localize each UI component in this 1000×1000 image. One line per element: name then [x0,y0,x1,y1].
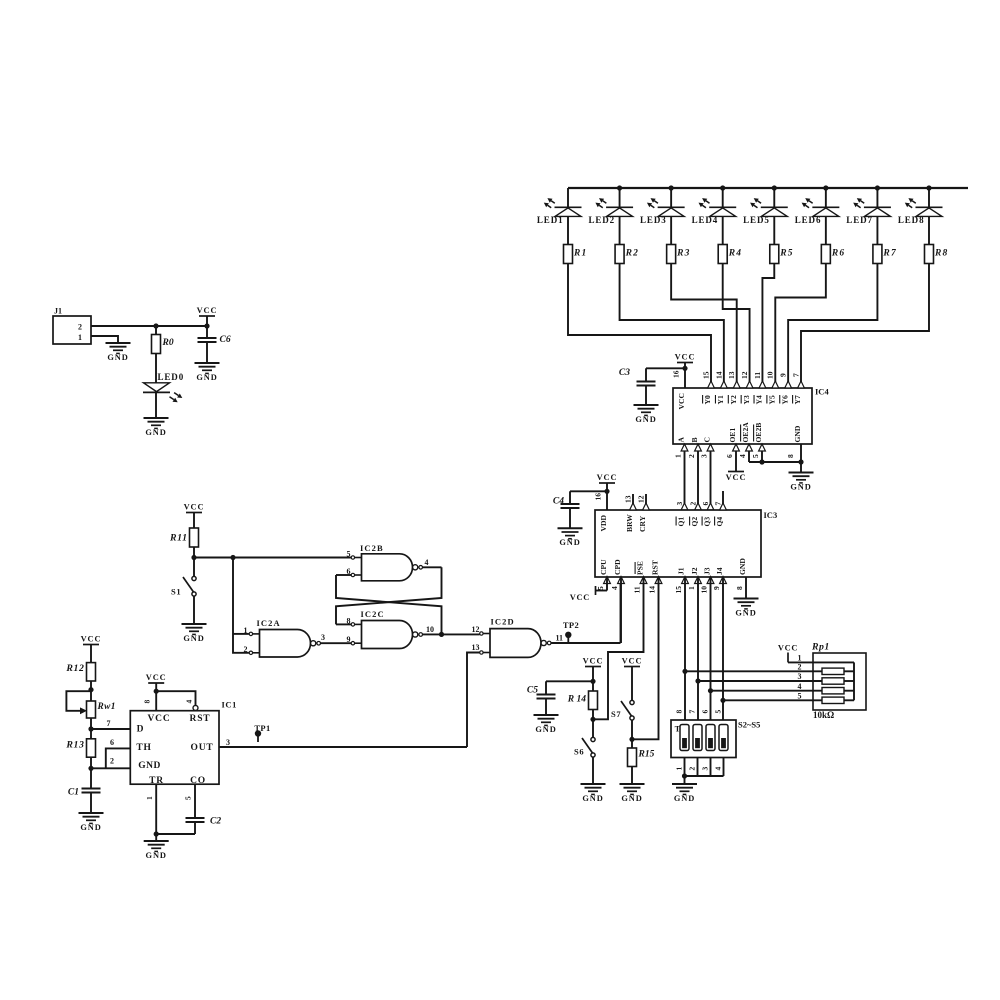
svg-text:VCC: VCC [778,644,798,653]
svg-text:OUT: OUT [191,743,214,753]
svg-text:VCC: VCC [81,635,102,644]
svg-text:TP2: TP2 [563,620,579,630]
svg-text:VCC: VCC [148,714,171,724]
svg-text:R4: R4 [728,249,743,259]
svg-text:C: C [703,437,712,442]
svg-text:1: 1 [78,333,82,342]
svg-text:GND: GND [559,538,580,547]
svg-text:LED6: LED6 [795,215,822,225]
svg-text:10: 10 [426,625,434,634]
svg-text:16: 16 [672,370,681,378]
svg-text:2: 2 [244,645,248,654]
svg-text:R2: R2 [625,249,640,259]
svg-text:GND: GND [738,558,747,575]
svg-text:GND: GND [146,851,167,860]
svg-text:OE2B: OE2B [754,423,763,443]
svg-text:J4: J4 [715,567,724,575]
svg-text:4: 4 [738,454,747,458]
svg-text:Q1: Q1 [677,517,686,527]
svg-text:11: 11 [753,372,762,379]
svg-text:B: B [690,437,699,442]
svg-text:7: 7 [107,719,111,728]
svg-text:S6: S6 [574,747,584,757]
svg-text:GND: GND [535,725,556,734]
svg-text:5: 5 [184,796,193,800]
svg-text:S2~S5: S2~S5 [738,720,760,730]
svg-text:D: D [137,725,144,735]
svg-text:CRY: CRY [638,515,647,532]
svg-text:GND: GND [196,373,217,382]
svg-text:6: 6 [701,502,710,506]
svg-text:16: 16 [594,493,603,501]
svg-text:LED4: LED4 [692,215,719,225]
svg-text:IC1: IC1 [222,700,238,710]
svg-text:4: 4 [425,558,429,567]
svg-text:5: 5 [751,454,760,458]
svg-text:GND: GND [107,353,128,362]
svg-text:14: 14 [714,371,723,379]
svg-text:Y1: Y1 [716,395,725,404]
svg-text:LED5: LED5 [743,215,770,225]
svg-text:6: 6 [700,710,709,714]
svg-text:S7: S7 [611,709,621,719]
svg-text:T: T [675,724,681,734]
svg-text:1: 1 [244,626,248,635]
svg-text:12: 12 [740,371,749,379]
svg-text:S1: S1 [171,587,181,597]
svg-text:13: 13 [727,371,736,379]
svg-text:4: 4 [798,682,802,691]
svg-text:VCC: VCC [570,593,590,602]
svg-text:BRW: BRW [625,514,634,532]
svg-text:GND: GND [183,634,204,643]
svg-text:7: 7 [791,373,800,377]
svg-text:Y3: Y3 [742,395,751,404]
svg-text:LED8: LED8 [898,215,925,225]
svg-text:GND: GND [582,794,603,803]
svg-text:2: 2 [78,323,82,332]
svg-text:3: 3 [226,738,230,747]
svg-text:R0: R0 [162,338,174,348]
svg-text:GND: GND [790,482,811,491]
svg-text:5: 5 [596,586,605,590]
svg-text:3: 3 [699,454,708,458]
svg-text:GND: GND [80,823,101,832]
svg-text:VCC: VCC [675,353,696,362]
svg-text:Q4: Q4 [715,517,724,527]
svg-text:C2: C2 [210,817,221,827]
svg-text:3: 3 [700,767,709,771]
svg-text:R11: R11 [169,533,188,544]
svg-text:13: 13 [623,495,632,503]
svg-text:9: 9 [347,635,351,644]
svg-text:12: 12 [472,625,480,634]
svg-text:9: 9 [779,373,788,377]
svg-text:6: 6 [110,738,114,747]
svg-text:Rp1: Rp1 [811,642,830,653]
svg-text:5: 5 [713,710,722,714]
svg-text:VCC: VCC [677,393,686,409]
svg-text:C1: C1 [68,788,79,798]
svg-text:5: 5 [798,691,802,700]
svg-text:GND: GND [793,425,802,442]
svg-text:15: 15 [701,371,710,379]
svg-text:11: 11 [556,633,564,642]
svg-text:2: 2 [688,502,697,506]
svg-text:VCC: VCC [726,473,747,482]
svg-text:CPU: CPU [599,559,608,575]
svg-text:R7: R7 [882,249,897,259]
svg-text:C5: C5 [527,686,538,696]
svg-text:IC2C: IC2C [361,609,385,619]
svg-text:Y4: Y4 [755,395,764,404]
svg-text:IC2B: IC2B [360,543,384,553]
svg-text:IC4: IC4 [815,387,829,397]
svg-text:4: 4 [185,700,194,704]
svg-text:1: 1 [798,653,802,662]
svg-text:10: 10 [699,586,708,594]
svg-text:2: 2 [798,663,802,672]
svg-text:LED7: LED7 [846,215,873,225]
svg-text:GND: GND [674,794,695,803]
svg-text:Y2: Y2 [729,395,738,404]
svg-text:VCC: VCC [583,657,604,666]
svg-text:5: 5 [347,550,351,559]
svg-text:R15: R15 [638,750,655,760]
svg-text:8: 8 [674,710,683,714]
svg-text:R12: R12 [65,663,84,674]
svg-text:2: 2 [110,756,114,765]
svg-text:RST: RST [190,714,211,724]
svg-text:1: 1 [145,796,154,800]
svg-text:VCC: VCC [597,473,618,482]
svg-text:R1: R1 [573,249,588,259]
svg-text:4: 4 [610,586,619,590]
svg-text:GND: GND [138,761,161,771]
svg-text:R6: R6 [831,249,846,259]
svg-text:3: 3 [321,633,325,642]
svg-text:OE2A: OE2A [741,422,750,443]
svg-text:GND: GND [621,794,642,803]
svg-text:7: 7 [713,502,722,506]
svg-text:LED2: LED2 [588,215,615,225]
svg-text:PSE: PSE [636,561,645,575]
svg-text:11: 11 [632,586,641,593]
svg-text:Y5: Y5 [767,395,776,404]
svg-text:A: A [677,437,686,443]
svg-text:8: 8 [735,586,744,590]
svg-text:R13: R13 [65,740,84,751]
svg-text:VCC: VCC [197,306,218,315]
svg-text:Rw1: Rw1 [97,702,116,712]
svg-text:12: 12 [636,495,645,503]
svg-text:VCC: VCC [146,673,167,682]
svg-text:3: 3 [798,672,802,681]
svg-text:R 14: R 14 [567,695,586,705]
svg-text:7: 7 [687,710,696,714]
svg-text:10: 10 [766,371,775,379]
svg-text:4: 4 [713,767,722,771]
svg-text:TP1: TP1 [254,723,270,733]
svg-text:CPD: CPD [613,559,622,575]
svg-text:C6: C6 [220,335,231,345]
svg-text:1: 1 [673,454,682,458]
svg-text:C3: C3 [619,368,630,378]
svg-text:VCC: VCC [184,503,205,512]
svg-text:1: 1 [674,767,683,771]
svg-text:IC2A: IC2A [257,618,281,628]
svg-text:LED3: LED3 [640,215,667,225]
svg-text:CO: CO [190,776,206,786]
svg-text:Q2: Q2 [690,517,699,527]
svg-text:R5: R5 [779,249,794,259]
svg-text:R3: R3 [676,249,691,259]
svg-text:C4: C4 [553,497,564,507]
svg-text:OE1: OE1 [728,428,737,443]
svg-text:13: 13 [472,643,480,652]
svg-text:Q3: Q3 [703,517,712,527]
svg-text:RST: RST [651,560,660,575]
svg-text:VDD: VDD [599,515,608,532]
svg-text:J1: J1 [677,567,686,575]
svg-text:9: 9 [712,586,721,590]
svg-text:15: 15 [674,586,683,594]
svg-text:GND: GND [145,428,166,437]
svg-text:J1: J1 [54,307,62,316]
svg-text:8: 8 [143,700,152,704]
svg-text:IC3: IC3 [764,510,778,520]
svg-text:VCC: VCC [622,657,643,666]
svg-text:Y6: Y6 [780,395,789,404]
svg-text:2: 2 [687,767,696,771]
svg-text:10kΩ: 10kΩ [813,710,834,720]
svg-text:LED1: LED1 [537,215,564,225]
svg-text:IC2D: IC2D [491,617,515,627]
svg-text:1: 1 [687,586,696,590]
svg-text:LED0: LED0 [158,372,185,382]
svg-text:J2: J2 [690,567,699,575]
svg-text:8: 8 [786,454,795,458]
svg-text:Y7: Y7 [793,395,802,404]
svg-text:14: 14 [647,586,656,594]
svg-text:6: 6 [725,454,734,458]
svg-text:3: 3 [675,502,684,506]
svg-text:GND: GND [735,608,756,617]
svg-text:R8: R8 [934,249,949,259]
svg-text:GND: GND [635,415,656,424]
svg-text:TH: TH [136,743,151,753]
svg-text:Y0: Y0 [703,395,712,404]
svg-text:J3: J3 [703,567,712,575]
svg-text:2: 2 [687,454,696,458]
